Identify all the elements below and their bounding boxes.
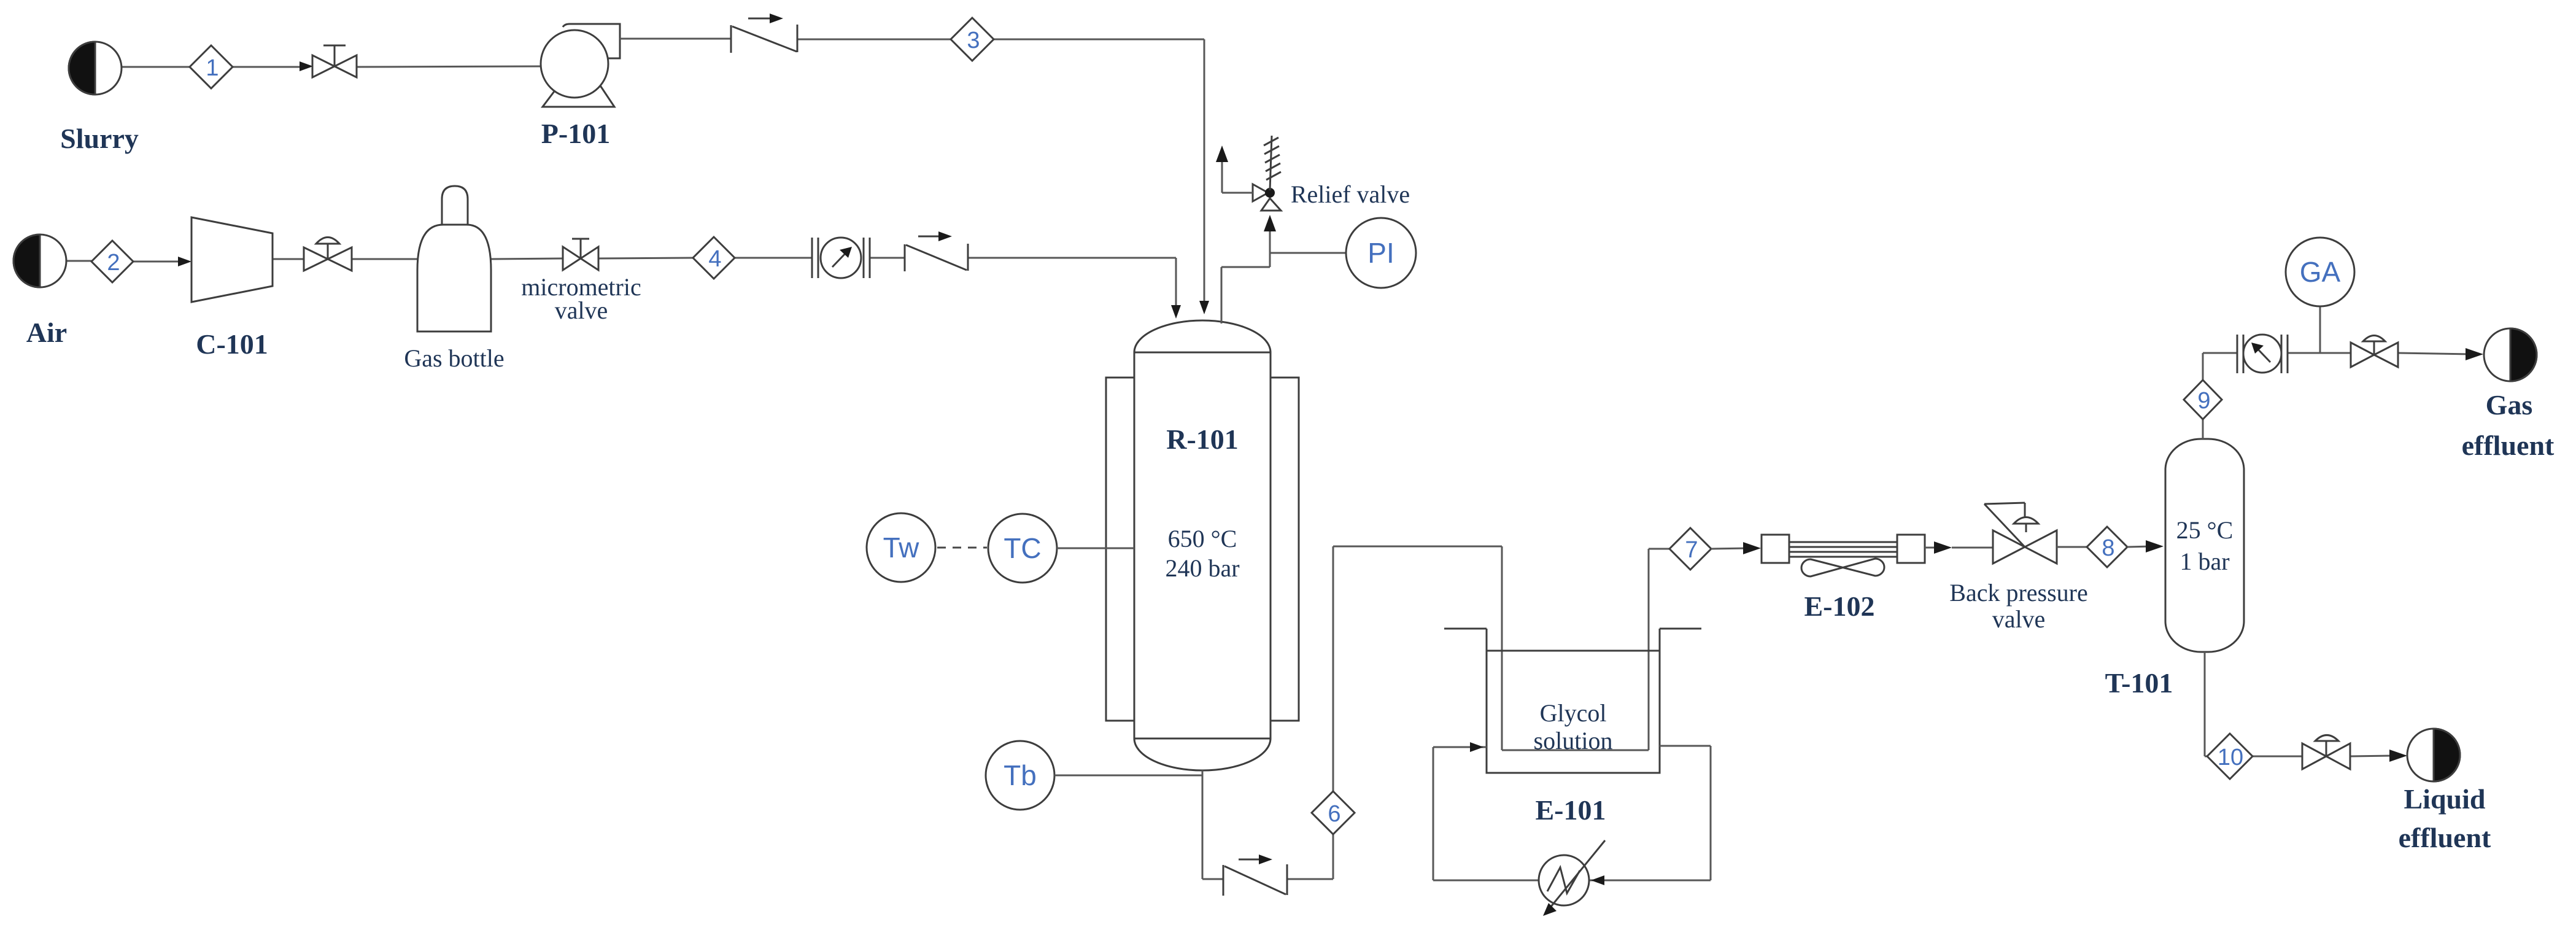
relief valve	[1253, 184, 1281, 211]
arrow out of E-102	[1925, 541, 1993, 554]
stream diamond 10	[2207, 734, 2253, 779]
gas bottle	[417, 186, 491, 331]
svg-text:Air: Air	[26, 317, 67, 348]
label Air	[26, 317, 67, 348]
check valve CV2	[905, 231, 968, 271]
arrow coolant into bath	[1470, 742, 1483, 752]
svg-text:Relief valve: Relief valve	[1291, 180, 1410, 208]
arrow coolant into chiller	[1591, 875, 1604, 885]
svg-text:TC: TC	[1004, 532, 1041, 564]
heat exchanger E-102 double pipe	[1762, 535, 1925, 576]
stream diamond 6	[1312, 791, 1355, 834]
stream diamond 1	[190, 45, 233, 88]
valve V4 (gas effluent)	[2351, 336, 2398, 368]
svg-text:effluent: effluent	[2399, 822, 2491, 853]
stream diamond 7	[1669, 528, 1711, 570]
check valve CV1	[731, 14, 797, 53]
svg-text:PI: PI	[1367, 237, 1394, 269]
instrument Tw	[867, 513, 935, 582]
compressor C-101	[191, 217, 273, 302]
separator T-101 vessel	[2165, 439, 2244, 652]
label Gas effluent	[2462, 389, 2555, 461]
label Gas bottle	[404, 344, 504, 372]
wire pump discharge line	[620, 39, 1204, 306]
svg-text:3: 3	[967, 28, 980, 53]
svg-text:Gas: Gas	[2486, 389, 2533, 421]
instrument PI	[1346, 218, 1416, 288]
wire separator gas outlet	[2203, 353, 2471, 439]
svg-text:valve: valve	[1992, 605, 2046, 633]
svg-text:1: 1	[206, 55, 219, 81]
svg-text:Slurry: Slurry	[60, 123, 139, 154]
label Liquid effluent	[2399, 783, 2491, 853]
wire cooling coil through glycol bath	[1502, 546, 1669, 750]
wire air feed line	[66, 258, 1176, 310]
label Back pressure valve	[1949, 579, 2087, 633]
valve V1 (slurry shutoff)	[312, 45, 357, 77]
instrument TC	[988, 514, 1057, 583]
arrow up into relief valve	[1264, 215, 1276, 231]
svg-text:C-101: C-101	[196, 328, 268, 360]
svg-text:GA: GA	[2300, 256, 2341, 288]
arrow into T-101	[2127, 540, 2164, 552]
source Slurry	[69, 42, 122, 95]
label P-101	[541, 118, 610, 149]
label T-101	[2105, 667, 2173, 699]
label E-102	[1804, 591, 1875, 622]
pump P-101	[541, 24, 620, 107]
svg-text:Tb: Tb	[1004, 759, 1037, 791]
svg-text:9: 9	[2197, 388, 2210, 414]
svg-text:10: 10	[2218, 745, 2243, 770]
label Glycol solution	[1534, 699, 1613, 754]
relief valve spring	[1264, 136, 1281, 190]
valve V3 micrometric	[563, 239, 598, 270]
stream diamond 8	[2087, 527, 2127, 567]
label R-101	[1166, 424, 1239, 455]
stream diamond 4	[693, 237, 735, 279]
svg-text:240 bar: 240 bar	[1165, 554, 1239, 582]
check valve CV3	[1223, 855, 1287, 896]
signal wire Tw to TC (dashed)	[937, 547, 987, 549]
sink Gas effluent	[2484, 328, 2537, 381]
svg-text:T-101: T-101	[2105, 667, 2173, 699]
source Air	[14, 234, 66, 287]
label Slurry	[60, 123, 139, 154]
glycol bath vessel E-101	[1444, 629, 1701, 773]
wire coolant recirculation loop	[1433, 746, 1711, 880]
wire Tb to reactor outlet	[1054, 775, 1202, 777]
flow arrow into compressor	[178, 257, 191, 266]
stream diamond 2	[91, 241, 133, 282]
back pressure valve	[1984, 503, 2057, 564]
svg-text:P-101: P-101	[541, 118, 610, 149]
wire slurry feed line	[122, 66, 542, 67]
svg-text:4: 4	[708, 246, 721, 272]
svg-text:solution: solution	[1534, 727, 1613, 754]
vent outlet wire with arrow	[1216, 145, 1253, 193]
svg-text:25 °C: 25 °C	[2176, 516, 2234, 544]
label 650 C 240 bar	[1165, 525, 1239, 582]
label micrometric valve	[521, 273, 641, 324]
label C-101	[196, 328, 268, 360]
svg-text:Liquid: Liquid	[2404, 783, 2486, 815]
svg-text:valve: valve	[555, 297, 608, 324]
svg-text:Back pressure: Back pressure	[1949, 579, 2087, 607]
label E-101	[1536, 794, 1606, 826]
arrow into reactor from line 4	[1171, 305, 1181, 319]
arrow into reactor from line 3	[1199, 301, 1209, 314]
flow meter FI-2	[2237, 335, 2288, 373]
svg-text:1 bar: 1 bar	[2180, 548, 2229, 575]
instrument GA	[2286, 238, 2354, 353]
flow meter FI-1	[812, 238, 870, 278]
chiller (refrigeration unit)	[1539, 840, 1605, 916]
svg-text:8: 8	[2102, 535, 2114, 561]
wire reactor bottom outlet	[1202, 546, 1502, 879]
valve V5 (liquid effluent)	[2302, 735, 2350, 770]
stream diamond 3	[951, 18, 994, 61]
svg-text:6: 6	[1328, 801, 1340, 827]
svg-text:Glycol: Glycol	[1540, 699, 1607, 727]
arrow to liquid effluent	[2389, 750, 2407, 762]
instrument Tb	[986, 741, 1054, 810]
arrow to gas effluent	[2466, 348, 2483, 360]
sink Liquid effluent	[2407, 729, 2460, 781]
svg-text:2: 2	[107, 250, 120, 276]
label Relief valve	[1291, 180, 1410, 208]
valve V2 (bottle isolation)	[304, 238, 352, 271]
svg-text:R-101: R-101	[1166, 424, 1239, 455]
wire separator liquid outlet	[2205, 652, 2392, 756]
heating jacket right	[1271, 378, 1299, 721]
arrow into E-102	[1711, 542, 1761, 554]
heating jacket left	[1106, 378, 1134, 721]
svg-text:7: 7	[1685, 537, 1698, 563]
svg-text:Tw: Tw	[883, 532, 920, 564]
label 25 C 1 bar	[2176, 516, 2234, 575]
svg-text:E-102: E-102	[1804, 591, 1875, 622]
stream diamond 9	[2184, 380, 2222, 419]
svg-text:effluent: effluent	[2462, 430, 2555, 461]
wire reactor vent to relief and PI	[1221, 227, 1347, 324]
reactor R-101 vessel	[1134, 320, 1271, 770]
wire TC to reactor	[1057, 548, 1134, 549]
flow arrow into valve	[300, 61, 313, 71]
svg-text:650 °C: 650 °C	[1168, 525, 1237, 552]
svg-text:Gas bottle: Gas bottle	[404, 344, 504, 372]
svg-text:E-101: E-101	[1536, 794, 1606, 826]
wire valve to separator	[2057, 546, 2087, 548]
